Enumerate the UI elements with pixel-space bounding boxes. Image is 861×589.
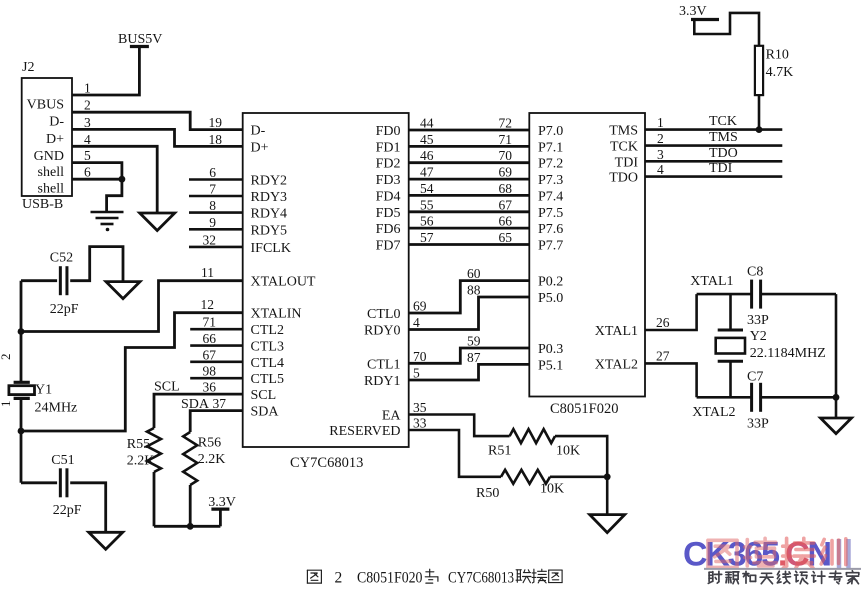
svg-text:32: 32 (203, 232, 217, 247)
svg-text:3: 3 (657, 147, 664, 162)
svg-text:4: 4 (413, 315, 420, 330)
wire R10 to TCK (758, 95, 761, 130)
junction shell (119, 176, 126, 183)
svg-text:60: 60 (467, 266, 481, 281)
watermark slogan char xian (777, 571, 790, 583)
svg-text:70: 70 (413, 349, 427, 364)
caption char (link1) (516, 570, 531, 583)
resistor R10 body (755, 46, 763, 95)
svg-text:10K: 10K (540, 482, 564, 497)
svg-text:D-: D- (49, 115, 64, 130)
resistor R51 (510, 429, 555, 443)
wire JTAG TDI (645, 175, 782, 178)
svg-text:26: 26 (656, 315, 670, 330)
wire stub pin 8 (189, 211, 243, 214)
svg-text:RESERVED: RESERVED (329, 424, 400, 439)
svg-text:FD6: FD6 (376, 222, 401, 237)
crystal Y1 (9, 382, 35, 398)
svg-text:TMS: TMS (709, 130, 738, 145)
svg-text:FD5: FD5 (376, 206, 401, 221)
svg-text:71: 71 (203, 315, 217, 330)
svg-text:FD2: FD2 (376, 157, 401, 172)
svg-text:24MHz: 24MHz (35, 401, 78, 416)
svg-text:11: 11 (201, 265, 214, 280)
svg-text:CTL0: CTL0 (367, 307, 400, 322)
svg-text:CTL1: CTL1 (367, 357, 400, 372)
svg-text:18: 18 (209, 132, 223, 147)
wire XTALOUT net (21, 281, 243, 332)
junction Y1 bottom (18, 428, 25, 435)
crystal Y2 (716, 330, 745, 361)
svg-text:EA: EA (382, 409, 402, 424)
svg-text:98: 98 (203, 364, 217, 379)
svg-text:C8051F020: C8051F020 (550, 401, 619, 417)
svg-text:1: 1 (84, 81, 91, 96)
junction R50/R51 (604, 473, 611, 480)
wire XTAL1 rail left (697, 293, 752, 296)
watermark slogan char ji (812, 571, 825, 583)
watermark red char 4 (821, 539, 846, 565)
caption char (figure2) (549, 570, 562, 583)
svg-text:69: 69 (413, 299, 427, 314)
earth ground (91, 212, 124, 224)
svg-text:VBUS: VBUS (27, 98, 64, 113)
svg-text:CTL2: CTL2 (251, 323, 284, 338)
svg-text:2: 2 (84, 98, 91, 113)
svg-text:1: 1 (0, 401, 13, 408)
svg-text:P7.5: P7.5 (538, 206, 563, 221)
watermark red char 1 (708, 540, 737, 567)
wire FD6 bus (409, 227, 530, 230)
svg-text:FD7: FD7 (376, 239, 401, 254)
wire stub pin 67 (190, 360, 243, 363)
wire FD7 bus (409, 243, 530, 246)
wire XTALIN net (21, 313, 243, 431)
wire CTL0 to P0.2 (409, 281, 530, 313)
svg-text:P0.3: P0.3 (538, 342, 563, 357)
wire SDA (190, 411, 243, 432)
wire rail right vertical (835, 294, 838, 418)
svg-text:CTL5: CTL5 (251, 372, 284, 387)
svg-text:66: 66 (203, 331, 217, 346)
wire to Y2 bottom (729, 361, 732, 397)
junction rail (833, 394, 840, 401)
wire FD0 bus (409, 129, 530, 132)
svg-text:6: 6 (209, 165, 216, 180)
caption char (figure) (307, 570, 321, 583)
svg-text:22pF: 22pF (53, 503, 82, 518)
svg-text:TDI: TDI (615, 155, 639, 170)
watermark slogan char tian (760, 573, 773, 583)
wire stub pin 32 (189, 246, 243, 249)
wire XTAL2 pin27 (645, 363, 697, 397)
ground (XTAL) (821, 418, 852, 434)
watermark slogan char pin (726, 572, 739, 584)
svg-text:CTL3: CTL3 (251, 340, 284, 355)
wire FD5 bus (409, 210, 530, 213)
ground (C51) (89, 532, 123, 549)
svg-text:Y2: Y2 (750, 329, 767, 344)
svg-text:2.2K: 2.2K (198, 452, 226, 467)
svg-text:59: 59 (467, 334, 481, 349)
wire C51 to ground (70, 483, 106, 533)
wire R50 to junction (550, 475, 607, 478)
wire to ground (606, 477, 609, 515)
wire RESERVED to R50 (409, 430, 501, 477)
svg-text:Y1: Y1 (35, 383, 52, 398)
resistor R50 (501, 470, 550, 484)
wire CTL1 to P0.3 (409, 348, 530, 363)
svg-text:22.1184MHZ: 22.1184MHZ (750, 346, 826, 361)
wire J2 shell pin6 (72, 178, 122, 181)
svg-text:6: 6 (84, 165, 91, 180)
svg-text:22pF: 22pF (50, 302, 79, 317)
wire RDY0 to P5.0 (409, 297, 530, 330)
svg-text:shell: shell (38, 165, 65, 180)
svg-text:XTAL2: XTAL2 (692, 405, 735, 420)
svg-text:3.3V: 3.3V (208, 495, 236, 510)
svg-text:3: 3 (84, 115, 91, 130)
svg-text:67: 67 (203, 347, 217, 362)
wire RDY1 to P5.1 (409, 364, 530, 380)
svg-text:35: 35 (413, 400, 427, 415)
wire XTAL2 rail right (761, 396, 836, 399)
svg-text:9: 9 (209, 215, 216, 230)
svg-text:D-: D- (251, 124, 266, 139)
wire J2 GND (72, 146, 157, 213)
svg-text:CY7C68013: CY7C68013 (290, 455, 363, 471)
resistor R55 (147, 428, 161, 472)
svg-text:3.3V: 3.3V (679, 4, 707, 19)
svg-text:GND: GND (34, 149, 64, 164)
svg-text:P7.6: P7.6 (538, 222, 563, 237)
svg-text:4.7K: 4.7K (766, 65, 794, 80)
svg-text:CY7C68013: CY7C68013 (448, 570, 514, 587)
svg-text:P7.4: P7.4 (538, 189, 563, 204)
svg-text:BUS5V: BUS5V (118, 32, 162, 47)
svg-text:7: 7 (209, 182, 216, 197)
svg-text:P7.7: P7.7 (538, 239, 563, 254)
svg-text:XTALOUT: XTALOUT (251, 275, 316, 290)
wire to 3.3V (219, 509, 222, 526)
power 3.3V bar (pullups) (211, 508, 229, 511)
svg-text:C8051F020: C8051F020 (357, 570, 423, 587)
svg-text:SCL: SCL (251, 388, 277, 403)
svg-text:RDY2: RDY2 (251, 174, 288, 189)
svg-text:C51: C51 (51, 453, 74, 468)
svg-text:1: 1 (657, 115, 664, 130)
wire FD3 bus (409, 178, 530, 181)
watermark underline (704, 568, 861, 570)
svg-text:RDY0: RDY0 (364, 324, 401, 339)
wire stub pin 66 (190, 344, 243, 347)
svg-text:65: 65 (499, 230, 513, 245)
svg-text:RDY3: RDY3 (251, 190, 288, 205)
watermark red char 2 (745, 538, 777, 566)
svg-text:5: 5 (413, 366, 420, 381)
svg-text:FD1: FD1 (376, 140, 401, 155)
wire XTAL1 rail right (761, 293, 836, 296)
ground (R50/R51) (590, 515, 625, 533)
svg-text:5: 5 (84, 148, 91, 163)
svg-text:J2: J2 (22, 60, 34, 75)
svg-text:XTAL1: XTAL1 (595, 324, 638, 339)
wire to Y2 top (729, 294, 732, 330)
svg-text:SDA: SDA (251, 405, 280, 420)
svg-text:33P: 33P (747, 313, 769, 328)
wire FD1 bus (409, 145, 530, 148)
svg-text:FD4: FD4 (376, 189, 401, 204)
svg-text:P5.1: P5.1 (538, 358, 563, 373)
svg-text:45: 45 (420, 132, 434, 147)
svg-text:R50: R50 (476, 486, 499, 501)
svg-text:C8: C8 (747, 265, 763, 280)
wire SCL (154, 394, 243, 428)
svg-text:33P: 33P (747, 417, 769, 432)
svg-text:TCK: TCK (610, 140, 638, 155)
svg-text:C52: C52 (50, 251, 73, 266)
caption char (link2) (532, 569, 547, 583)
junction Y1 top (18, 328, 25, 335)
svg-text:P5.0: P5.0 (538, 291, 563, 306)
svg-text:FD3: FD3 (376, 173, 401, 188)
svg-text:2: 2 (657, 131, 664, 146)
svg-text:47: 47 (420, 165, 434, 180)
svg-text:4: 4 (84, 132, 91, 147)
svg-text:4: 4 (657, 162, 664, 177)
svg-text:C7: C7 (747, 370, 763, 385)
wire to C51 (21, 481, 57, 484)
caption char (with) (425, 569, 438, 583)
svg-text:XTAL1: XTAL1 (690, 274, 733, 289)
svg-text:70: 70 (499, 148, 513, 163)
svg-text:D+: D+ (251, 140, 269, 155)
svg-text:69: 69 (499, 165, 513, 180)
wire J2 D+ to pin18 (72, 129, 243, 146)
svg-text:2: 2 (335, 570, 343, 587)
svg-text:57: 57 (420, 230, 434, 245)
capacitor C8 (752, 280, 761, 309)
svg-text:87: 87 (467, 350, 481, 365)
wire J2 shell pin5 (72, 163, 122, 211)
svg-text:54: 54 (420, 181, 434, 196)
wire JTAG TCK (645, 128, 782, 131)
wire EA to R51 (409, 415, 510, 437)
wire XTAL1 pin26 (645, 294, 697, 330)
resistor R56 (183, 432, 197, 485)
svg-text:P7.1: P7.1 (538, 140, 563, 155)
wire C52 to ground (70, 247, 123, 281)
wire R55 bottom (153, 472, 156, 526)
svg-text:27: 27 (656, 348, 670, 363)
svg-text:2.2K: 2.2K (127, 454, 155, 469)
power 3.3V bar (691, 18, 719, 21)
svg-text:P7.3: P7.3 (538, 173, 563, 188)
svg-text:D+: D+ (46, 132, 64, 147)
wire JTAG TMS (645, 144, 782, 147)
svg-text:71: 71 (499, 132, 513, 147)
wire R56 bottom (189, 485, 192, 526)
wire R51 to junction (555, 436, 607, 477)
svg-text:8: 8 (209, 198, 216, 213)
svg-text:IFCLK: IFCLK (251, 241, 291, 256)
svg-text:P7.0: P7.0 (538, 124, 563, 139)
wire FD2 bus (409, 161, 530, 164)
svg-text:R10: R10 (766, 48, 789, 63)
svg-text:FD0: FD0 (376, 124, 401, 139)
watermark slogan char he (743, 571, 756, 583)
svg-text:67: 67 (499, 197, 513, 212)
watermark bars (839, 539, 849, 568)
IC U2 C8051F020 box (529, 113, 645, 397)
svg-text:RDY1: RDY1 (364, 374, 401, 389)
watermark red char 3 (783, 538, 815, 568)
capacitor C51 (60, 468, 67, 497)
wire XTAL2 rail left (697, 396, 752, 399)
svg-text:R56: R56 (198, 436, 221, 451)
svg-text:R55: R55 (127, 437, 150, 452)
ground (C52) (106, 282, 140, 299)
capacitor C7 (752, 383, 761, 412)
svg-text:19: 19 (209, 115, 223, 130)
wire stub pin 9 (189, 228, 243, 231)
junction R10/TCK (756, 126, 763, 133)
svg-text:TDI: TDI (709, 161, 733, 176)
watermark slogan char shi (795, 571, 808, 583)
svg-text:55: 55 (420, 197, 434, 212)
svg-text:P0.2: P0.2 (538, 275, 563, 290)
svg-text:37: 37 (213, 396, 227, 411)
wire Y1 to C51 (20, 400, 23, 483)
svg-text:P7.2: P7.2 (538, 157, 563, 172)
wire pullup rail (154, 525, 220, 528)
svg-text:RDY5: RDY5 (251, 223, 288, 238)
wire 3.3V to R10 (694, 13, 759, 46)
wire BUS5V to J2 pin1 (72, 47, 139, 96)
svg-text:TDO: TDO (609, 171, 638, 186)
svg-text:SCL: SCL (154, 380, 180, 395)
svg-text:44: 44 (420, 116, 434, 131)
wire stub pin 6 (189, 178, 243, 181)
svg-text:72: 72 (499, 116, 513, 131)
svg-text:shell: shell (38, 182, 65, 197)
svg-text:R51: R51 (488, 444, 511, 459)
watermark slogan char jia (846, 571, 858, 584)
svg-text:USB-B: USB-B (22, 197, 63, 212)
wire FD4 bus (409, 194, 530, 197)
wire C52 to Y1 (20, 281, 23, 381)
power BUS5V bar (130, 45, 149, 48)
svg-text:TDO: TDO (709, 146, 738, 161)
svg-text:56: 56 (420, 214, 434, 229)
svg-text:XTALIN: XTALIN (251, 307, 302, 322)
svg-text:CTL4: CTL4 (251, 356, 284, 371)
svg-text:12: 12 (201, 297, 215, 312)
svg-text:TMS: TMS (609, 124, 638, 139)
wire stub pin 71 (190, 328, 243, 331)
svg-text:33: 33 (413, 416, 427, 431)
svg-text:46: 46 (420, 148, 434, 163)
svg-text:XTAL2: XTAL2 (595, 357, 638, 372)
watermark slogan char zhuan (829, 571, 842, 584)
svg-text:10K: 10K (556, 444, 580, 459)
svg-text:RDY4: RDY4 (251, 207, 288, 222)
wire stub pin 7 (189, 195, 243, 198)
IC U1 CY7C68013 box (243, 113, 409, 447)
svg-text:TCK: TCK (709, 114, 737, 129)
ground (J2 GND) (140, 213, 175, 231)
capacitor C52 (60, 266, 67, 295)
svg-text:2: 2 (0, 354, 13, 361)
svg-text:68: 68 (499, 181, 513, 196)
wire J2 D- to pin19 (72, 112, 243, 129)
svg-text:88: 88 (467, 283, 481, 298)
svg-text:36: 36 (203, 380, 217, 395)
svg-text:66: 66 (499, 214, 513, 229)
wire to C52 (21, 279, 57, 282)
junction pullups (187, 523, 194, 530)
connector J2 box (22, 78, 72, 196)
watermark slogan char she (708, 571, 721, 583)
wire JTAG TDO (645, 160, 782, 163)
wire stub pin 98 (190, 377, 243, 380)
